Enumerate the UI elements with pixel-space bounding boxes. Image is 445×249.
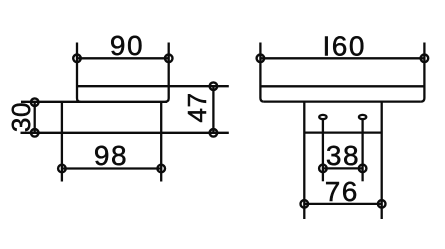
svg-text:38: 38	[326, 140, 360, 171]
dish right edge + extension tick	[421, 43, 425, 102]
dish inner line	[260, 85, 424, 87]
dim line 47	[212, 86, 214, 133]
dish bottom / plate top line + extension line to 30 dim	[21, 101, 167, 103]
screw stem left + extension to 38 dim	[322, 119, 324, 181]
back plate left edge + extension to 76 dim	[303, 102, 305, 219]
svg-text:90: 90	[110, 30, 144, 61]
svg-text:I60: I60	[322, 30, 365, 61]
dish left edge + extension tick	[77, 43, 81, 102]
dish top edge / dim line 160	[260, 57, 424, 59]
dim circle 47 bottom	[210, 129, 218, 137]
svg-text:76: 76	[325, 176, 359, 207]
dim circle 76 left	[301, 200, 309, 208]
dim circle 90 left	[73, 55, 81, 63]
dish left edge + extension tick	[260, 43, 264, 102]
screw stem right + extension to 38 dim	[361, 119, 363, 181]
screw head left	[319, 115, 326, 119]
back plate right edge + extension to 76 dim	[381, 102, 383, 219]
plate bottom feature line	[304, 131, 381, 133]
dim circle 30 bottom	[31, 129, 39, 137]
dim circle 90 right	[165, 55, 173, 63]
dish inner line + extension line to 47 dim	[77, 85, 229, 87]
dim circle 38 right	[359, 165, 367, 173]
dim circle 160 right	[421, 55, 429, 63]
wall plate left edge + extension to 98 dim	[61, 102, 63, 182]
dim line 76	[304, 203, 381, 205]
dim circle 98 left	[58, 165, 66, 173]
screw head right	[359, 115, 366, 119]
dim circle 47 top	[210, 82, 218, 90]
dish top edge / dim line 90	[77, 57, 169, 59]
svg-text:98: 98	[94, 140, 128, 171]
dim circle 38 left	[319, 165, 327, 173]
dim line 30	[34, 102, 36, 133]
svg-text:30: 30	[6, 102, 36, 132]
dish right edge + extension tick	[165, 43, 169, 102]
svg-text:47: 47	[182, 92, 212, 122]
dim circle 30 top	[31, 98, 39, 106]
dim line 38	[323, 167, 363, 169]
wall plate right edge + extension to 98 dim	[160, 102, 162, 182]
plate bottom line + extension lines to 30 and 47 dims	[21, 132, 229, 134]
dim circle 98 right	[157, 165, 165, 173]
dim line 98	[62, 167, 161, 169]
dish bottom line	[264, 100, 421, 102]
dim circle 160 left	[257, 55, 265, 63]
dim circle 76 right	[378, 200, 386, 208]
